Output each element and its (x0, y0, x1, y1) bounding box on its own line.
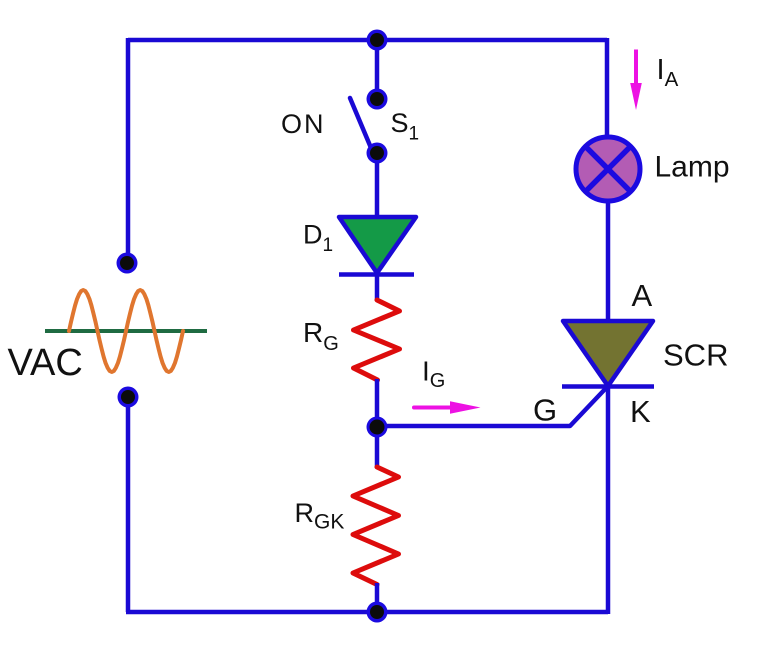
wire top: left corner to right corner (128, 38, 607, 43)
wire: gate junction to SCR gate (377, 386, 608, 426)
svg-text:Lamp: Lamp (655, 151, 730, 184)
arrow IG (gate current) (414, 401, 481, 413)
switch S1 bottom contact dot (367, 143, 388, 164)
switch S1 top contact dot (367, 89, 388, 110)
wire bottom: left corner to right corner (126, 610, 608, 615)
svg-text:ON: ON (281, 109, 326, 139)
wire right upper: top-right corner down to lamp (605, 38, 610, 140)
wire left lower: VAC bottom terminal down to bottom-left corner (126, 397, 131, 612)
svg-text:G: G (533, 393, 557, 428)
wire: top junction to switch S1 (375, 40, 380, 99)
arrow IA (anode current) (630, 50, 642, 111)
green zero axis line (45, 329, 207, 333)
svg-text:A: A (632, 278, 653, 313)
switch blade (350, 98, 374, 155)
node: top junction dot (367, 30, 388, 51)
switch S1 (350, 98, 374, 155)
wire: RGK to bottom junction (375, 583, 380, 612)
resistor RGK (353, 467, 399, 585)
wire right middle: lamp to SCR anode (606, 200, 611, 323)
node: bottom junction dot (367, 602, 388, 623)
wire: diode to resistor RG (375, 274, 380, 301)
diode cathode bar (339, 272, 414, 277)
wire right lower: SCR cathode down to bottom-right corner (606, 386, 611, 614)
lamp (576, 137, 640, 201)
wire: switch to diode D1 (375, 153, 380, 219)
SCR cathode bar (562, 384, 654, 389)
VAC source sine wave (45, 290, 207, 372)
resistor RG (354, 300, 400, 380)
orange sine curve (69, 290, 183, 372)
wire left upper: top-left corner down to VAC top terminal (126, 38, 131, 263)
node: gate junction dot (367, 417, 388, 438)
wire: RG to gate junction (375, 379, 380, 428)
svg-text:VAC: VAC (8, 342, 83, 384)
node: VAC bottom terminal dot (118, 387, 139, 408)
diode D1 (339, 217, 416, 275)
SCR (562, 321, 654, 387)
node: VAC top terminal dot (117, 253, 138, 274)
svg-text:SCR: SCR (663, 337, 728, 372)
wire: gate junction down to RGK (375, 427, 380, 468)
svg-text:K: K (630, 394, 651, 429)
